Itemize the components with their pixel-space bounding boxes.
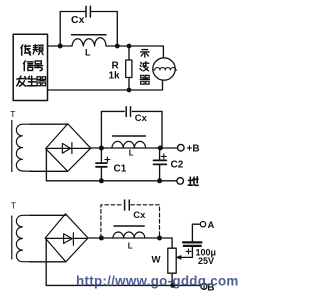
transformer T3 secondary coil: [16, 215, 33, 261]
wire: wiper to cap bottom: [191, 246, 193, 258]
text 地: [188, 177, 198, 186]
svg-text:C1: C1: [114, 164, 127, 175]
node dot: filter output: [158, 146, 163, 151]
node dot: C2 ground: [157, 178, 162, 183]
terminal B circle: [201, 283, 207, 289]
transformer T2 secondary coil: [16, 124, 33, 171]
ground rail (middle): [46, 180, 176, 182]
text 器(scope): [140, 75, 149, 84]
text 信: [23, 61, 33, 71]
text 示: [141, 50, 149, 58]
transformer T3 primary line: [11, 216, 13, 259]
node junction dot at R branch top: [127, 44, 132, 49]
svg-text:C2: C2: [171, 160, 184, 171]
svg-text:L: L: [85, 48, 91, 58]
text 频: [33, 45, 43, 55]
svg-text:Cx: Cx: [71, 14, 85, 26]
wire: secondary bottom to bridge bottom corner: [30, 170, 68, 172]
ground terminal circle: [177, 178, 184, 185]
oscilloscope circle with sine: [153, 58, 175, 80]
inductor L (top): 3 humps: [72, 38, 106, 46]
bottom rail: [46, 284, 201, 286]
svg-text:A: A: [208, 220, 215, 231]
svg-text:T: T: [11, 200, 16, 210]
pot wiper arrow: [181, 256, 193, 258]
svg-text:Cx: Cx: [133, 209, 146, 220]
capacitor C2: [159, 148, 161, 160]
node dot: C1 ground: [99, 178, 104, 183]
svg-text:L: L: [128, 241, 133, 250]
diode inside bridge (middle): [47, 143, 91, 154]
inductor L (middle): [112, 141, 146, 148]
potentiometer W body: [168, 248, 176, 273]
svg-text:Cx: Cx: [135, 112, 148, 123]
capacitor C1: [100, 148, 102, 163]
text 号: [34, 61, 43, 71]
wire: generator top output to node A: [48, 45, 73, 47]
electrolytic capacitor 100u plates: [183, 242, 202, 246]
svg-text:T: T: [10, 109, 15, 119]
text 低: [21, 45, 31, 55]
+B terminal circle: [178, 144, 185, 151]
svg-text:http://www.go-gddq.com: http://www.go-gddq.com: [76, 273, 239, 288]
transformer T2 primary line: [11, 121, 13, 172]
text 波: [140, 62, 149, 71]
bridge rectifier diamond (middle): [46, 124, 91, 172]
wire: bottom rail: [48, 80, 163, 90]
wire: cap top to terminal A: [192, 224, 200, 242]
cap plus sign: [186, 249, 191, 254]
inductor core line (top): [72, 34, 107, 36]
node dot: filter output (bottom): [157, 236, 162, 241]
CJK text: generator box 低频/信号/发生器: [17, 45, 198, 186]
text 器: [37, 77, 46, 86]
node A junction dot: [58, 44, 63, 49]
wire: secondary top to bridge (bottom ckt): [30, 214, 66, 216]
text 生: [27, 76, 37, 86]
wire: bridge output rail (bottom): [88, 238, 172, 248]
svg-text:W: W: [152, 255, 161, 266]
terminal A circle: [200, 222, 205, 227]
signal generator box: [13, 34, 47, 100]
wire: pot bottom to rail: [171, 273, 173, 285]
diode inside bridge (bottom): [46, 233, 88, 246]
node dot: filter input (bottom): [99, 236, 104, 241]
svg-text:L: L: [129, 148, 134, 157]
inductor core line (middle): [113, 135, 146, 137]
dashed Cx box (bottom): [101, 205, 160, 238]
wire: top rail from inductor to scope corner: [106, 46, 163, 58]
wire: bridge left corner down to ground rail: [45, 149, 47, 181]
svg-text:1k: 1k: [109, 71, 121, 82]
node junction dot loop right: [115, 44, 120, 49]
capacitor Cx (bottom) plates: [125, 200, 130, 210]
node junction dot at R branch bottom: [127, 88, 132, 93]
wire: Cx loop (middle): [101, 111, 162, 148]
inductor L (bottom): [113, 232, 145, 238]
capacitor Cx (top) plates: [86, 6, 90, 17]
wire: Cx loop (top): [60, 12, 117, 47]
svg-text:25V: 25V: [198, 256, 214, 266]
svg-text:+B: +B: [187, 144, 200, 155]
wire: secondary bottom to bridge bottom corner (bottom ckt): [30, 261, 66, 263]
text 发: [17, 76, 26, 86]
node dot: filter input: [99, 146, 104, 151]
capacitor Cx (middle) plates: [126, 107, 130, 117]
C1 plus sign: [105, 157, 110, 162]
resistor R body: [128, 46, 130, 90]
wire: bridge output to +B: [91, 147, 178, 149]
C2 plus sign: [161, 154, 166, 159]
wire: bridge left corner down to bottom rail: [45, 238, 47, 285]
node dot: pot bottom on rail: [170, 283, 175, 288]
bridge rectifier diamond (bottom): [45, 214, 88, 262]
inductor core line (bottom): [114, 225, 144, 227]
wire: secondary top to bridge: [30, 123, 68, 125]
